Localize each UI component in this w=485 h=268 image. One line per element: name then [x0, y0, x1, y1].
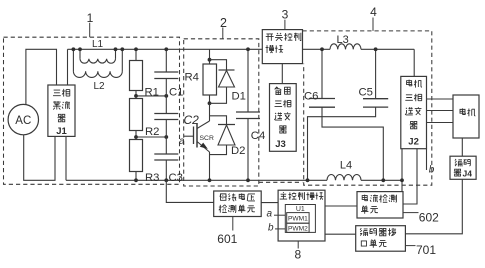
dashed box module 2 — [184, 39, 259, 186]
wire DC+ bus drop to J2 — [413, 49, 415, 76]
inductor L3 — [330, 44, 361, 50]
capacitor C5 — [375, 49, 377, 98]
diode D1 — [210, 60, 227, 70]
wire J2 current sense to current detection unit — [403, 149, 417, 204]
motor — [453, 95, 479, 138]
svg-text:601: 601 — [217, 232, 237, 246]
svg-text:a: a — [267, 209, 273, 220]
wire C6 bottom cross to bus right of L4 — [322, 107, 383, 180]
svg-text:4: 4 — [370, 5, 377, 19]
svg-text:U1: U1 — [296, 206, 305, 213]
svg-text:PWM1: PWM1 — [288, 216, 308, 223]
AC source — [8, 104, 38, 134]
resistor R3 — [130, 140, 143, 172]
svg-text:C5: C5 — [359, 87, 373, 99]
svg-text:b: b — [429, 165, 435, 176]
resistor R1 — [135, 49, 137, 60]
wire AC top to J1 — [26, 49, 57, 104]
label 601 — [232, 217, 234, 231]
net label b stub at J2 — [426, 149, 428, 170]
wire main module to encoder interface unit — [325, 233, 356, 235]
svg-text:J1: J1 — [56, 126, 67, 137]
dashed box module 1 — [4, 37, 180, 184]
PWM2 — [287, 223, 309, 232]
bus voltage detection unit (601) — [214, 191, 262, 217]
MCU U1 — [285, 205, 315, 233]
wire main module to current detection unit — [325, 205, 357, 207]
label 8 — [297, 241, 299, 249]
svg-text:C6: C6 — [304, 91, 318, 103]
wire J2 DC- to current detection top — [401, 180, 403, 191]
wire J1 bottom right to DC- bus — [65, 136, 67, 180]
wire DC- bus — [66, 179, 327, 181]
svg-text:1: 1 — [87, 11, 94, 25]
svg-text:J4: J4 — [463, 169, 473, 179]
capacitor C3 — [154, 153, 178, 155]
svg-text:L3: L3 — [337, 34, 349, 46]
SCR (IGBT switch) — [209, 103, 211, 121]
svg-text:C1: C1 — [169, 86, 183, 98]
svg-text:SCR: SCR — [200, 135, 214, 142]
svg-text:3: 3 — [282, 7, 289, 21]
svg-text:a: a — [179, 136, 185, 147]
wire detection unit to main control module — [261, 202, 278, 204]
svg-text:8: 8 — [295, 247, 302, 261]
wire DC+ bus — [68, 48, 263, 50]
svg-text:b: b — [268, 223, 274, 234]
three-phase wires J2 to motor — [427, 98, 454, 100]
capacitor C6 — [321, 49, 323, 98]
wire R2R3 junction to C2C3 junction — [136, 136, 166, 138]
capacitor C4 — [247, 49, 249, 112]
svg-text:AC: AC — [15, 115, 31, 127]
svg-text:PWM2: PWM2 — [288, 226, 308, 233]
resistor R4 — [209, 49, 211, 64]
svg-text:C3: C3 — [169, 172, 183, 184]
wire C3 node to bus voltage detection unit — [166, 180, 213, 202]
wire AC bottom to J1 bottom bus — [24, 135, 55, 180]
wire J1 top right to DC+ bus — [67, 49, 69, 85]
svg-text:R3: R3 — [145, 172, 159, 184]
encoder interface unit (701) — [356, 226, 406, 252]
wire encoder J4 to encoder interface unit — [405, 179, 462, 234]
svg-text:C4: C4 — [251, 130, 265, 142]
capacitor C2 — [154, 113, 178, 115]
PWM1 — [287, 213, 309, 224]
svg-text:L4: L4 — [340, 159, 352, 171]
main control module (8) — [278, 190, 325, 241]
wire switch module to J3 — [281, 64, 283, 84]
inductor L2 — [72, 49, 74, 71]
current detection unit (602) — [357, 192, 403, 218]
switch control module (3) — [262, 30, 302, 64]
label 602 — [403, 212, 419, 214]
svg-text:R4: R4 — [185, 71, 199, 83]
capacitor C1 — [165, 49, 167, 72]
svg-text:701: 701 — [416, 243, 436, 257]
svg-text:D1: D1 — [232, 91, 246, 103]
svg-text:R2: R2 — [145, 126, 159, 138]
wire R1R2 junction to C1C2 junction — [136, 95, 166, 97]
svg-text:L2: L2 — [93, 81, 105, 92]
svg-text:J2: J2 — [408, 137, 419, 148]
svg-text:J3: J3 — [275, 139, 286, 150]
dashed box module 3 (backup inverter bay) — [259, 181, 302, 183]
wire motor to encoder J4 — [461, 138, 463, 156]
encoder J4 — [450, 156, 476, 179]
svg-text:L1: L1 — [92, 39, 104, 50]
inductor L4 — [327, 174, 361, 180]
svg-text:D2: D2 — [231, 145, 245, 157]
svg-text:R1: R1 — [145, 86, 159, 98]
inductor L1 — [79, 49, 81, 59]
backup three-phase inverter J3 — [270, 84, 297, 152]
motor three-phase inverter J2 — [401, 76, 427, 148]
label 701 — [405, 245, 415, 247]
wire C5 bottom cross to bus left of L4 — [308, 107, 376, 180]
svg-text:602: 602 — [419, 210, 439, 224]
resistor R2 — [130, 99, 143, 131]
wire DC- bus rise to J2 — [401, 149, 403, 181]
dashed box module 4 — [303, 31, 432, 185]
svg-text:2: 2 — [220, 16, 227, 30]
diode D2 — [210, 116, 227, 125]
rectifier module J1 — [48, 85, 75, 136]
